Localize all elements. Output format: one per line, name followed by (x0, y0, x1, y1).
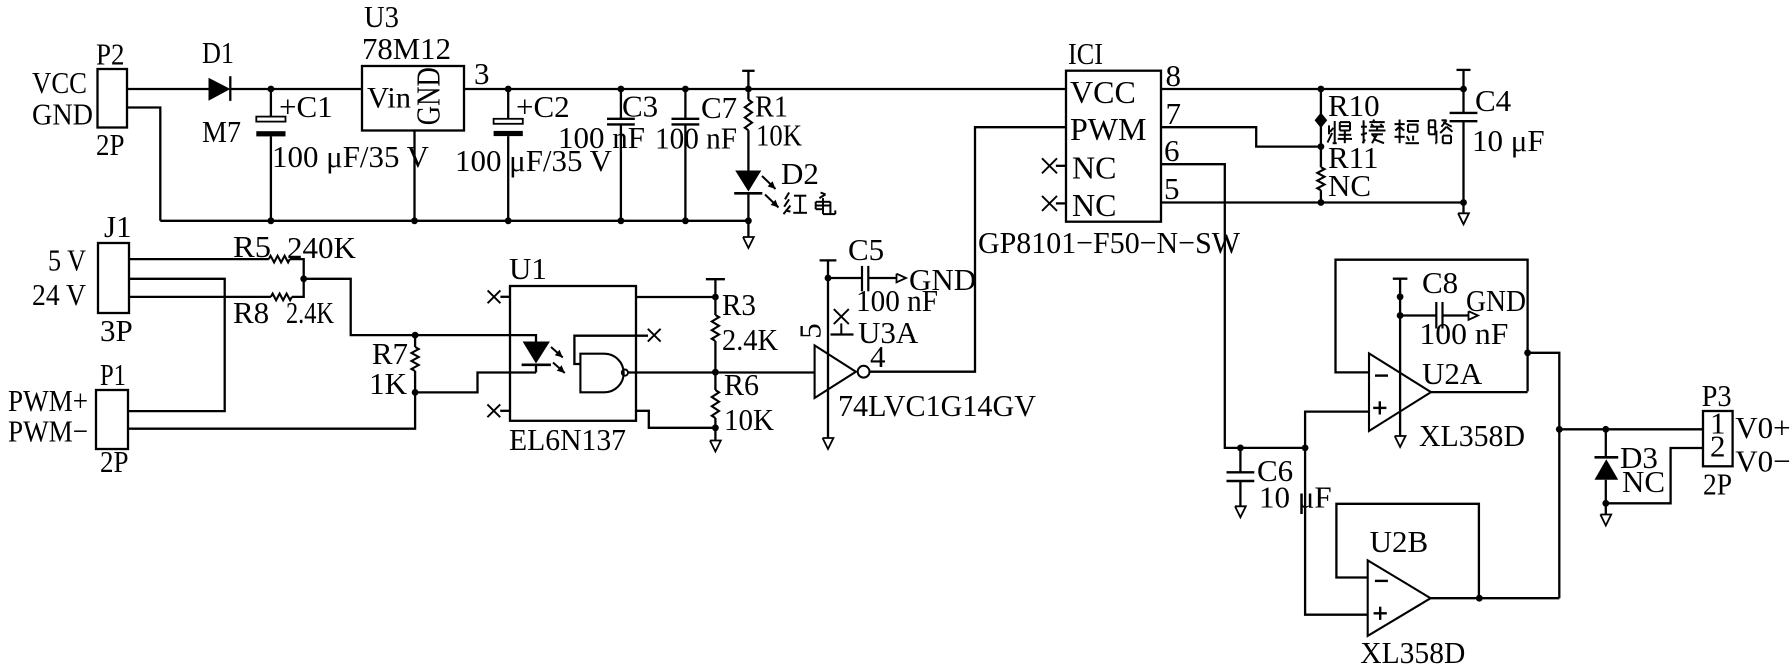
svg-text:2P: 2P (100, 444, 129, 479)
node C1 bottom (268, 217, 275, 224)
svg-text:GP8101−F50−N−SW: GP8101−F50−N−SW (978, 225, 1241, 260)
wire top rail U3 pin3 to IC1 VCC (464, 88, 1066, 90)
node R10 R11 junction (1318, 143, 1325, 150)
node C2 bottom (505, 217, 512, 224)
svg-text:M7: M7 (202, 114, 241, 149)
wire V0+ to P3 pin1 (1559, 428, 1703, 430)
U3A power line with stub and ground (820, 260, 837, 449)
connector P3 (1702, 378, 1791, 502)
connector P2 (32, 37, 127, 163)
inverter U3A 74LVC1G14GV (793, 315, 1037, 423)
svg-text:78M12: 78M12 (362, 31, 451, 66)
diode D1 (202, 35, 241, 149)
capacitor C5 to GND (828, 232, 976, 318)
node C4 top (1460, 86, 1467, 93)
IC IC1 GP8101 (978, 36, 1241, 260)
wire top rail D1 to U3 Vin (230, 88, 362, 90)
capacitor C2 (455, 89, 613, 221)
svg-text:C3: C3 (622, 89, 658, 124)
svg-text:VCC: VCC (32, 65, 87, 100)
resistor R1 (745, 89, 803, 171)
svg-text:XL358D: XL358D (1419, 418, 1525, 453)
node R10 top (1318, 86, 1325, 93)
node C3 top (618, 86, 625, 93)
svg-text:U3: U3 (364, 0, 399, 34)
resistor R3 (712, 287, 779, 372)
node C5 left (825, 275, 832, 282)
wire P2 pin1 to D1 anode (127, 88, 209, 90)
connector J1 (32, 209, 133, 348)
svg-text:GND: GND (1466, 283, 1526, 318)
svg-text:C5: C5 (848, 232, 884, 267)
svg-text:R5: R5 (233, 229, 271, 264)
wire C6 node down to U2B plus input (1305, 448, 1368, 615)
node R1 top (745, 86, 752, 93)
power stub above R3 (706, 279, 725, 297)
U2B feedback loop wire (1336, 504, 1479, 598)
svg-text:2P: 2P (96, 127, 125, 162)
U1 internal led (522, 342, 565, 374)
svg-text:10 μF: 10 μF (1259, 480, 1332, 515)
svg-text:NC: NC (1328, 168, 1371, 203)
svg-text:100 nF: 100 nF (558, 120, 645, 155)
node R11 bottom (1318, 199, 1325, 206)
svg-text:GND: GND (32, 97, 93, 132)
svg-text:D2: D2 (781, 156, 819, 191)
node R3 R6 junction (712, 369, 719, 376)
svg-text:+C2: +C2 (516, 89, 570, 124)
svg-text:10K: 10K (724, 402, 775, 437)
U1 internal nand gate (580, 354, 628, 393)
node D3 bottom (1602, 500, 1609, 507)
optocoupler U1 EL6N137 (509, 251, 636, 457)
U2B output wire (1431, 597, 1560, 599)
U2A feedback loop wire (1336, 260, 1528, 392)
diode D3 (1595, 429, 1666, 503)
node U2B feedback junction (1476, 595, 1483, 602)
svg-text:2: 2 (1710, 429, 1726, 464)
wire IC1 pin7 to R10 R11 node (1161, 127, 1321, 146)
svg-text:5: 5 (793, 323, 828, 339)
svg-text:J1: J1 (104, 209, 132, 244)
svg-text:100 μF/35 V: 100 μF/35 V (272, 139, 430, 174)
node V0 branch (1556, 426, 1563, 433)
svg-text:NC: NC (1072, 149, 1116, 185)
svg-text:U1: U1 (509, 251, 547, 286)
node C2 top (505, 86, 512, 93)
resistor R8 (233, 294, 334, 330)
U2A output wire (1431, 391, 1528, 393)
svg-text:100 nF: 100 nF (1419, 316, 1508, 351)
svg-text:U2A: U2A (1422, 356, 1483, 391)
resistor R7 (369, 335, 419, 401)
wire U3 GND pin to ground rail (413, 131, 415, 221)
svg-text:C4: C4 (1475, 83, 1512, 118)
U2A power line with stub and ground (1393, 279, 1408, 447)
node R7 bottom (412, 389, 419, 396)
node D3 top (1602, 426, 1609, 433)
svg-text:ICI: ICI (1068, 36, 1103, 71)
wire D3 node to P3 pin2 (1606, 448, 1703, 503)
svg-text:5: 5 (1164, 171, 1180, 206)
svg-text:P1: P1 (100, 357, 126, 392)
op-amp U2B XL358D (1360, 524, 1465, 667)
svg-text:NC: NC (1622, 464, 1665, 499)
svg-text:6: 6 (1164, 133, 1180, 168)
node D2 bottom (745, 217, 752, 224)
led D2 (734, 156, 819, 221)
node R5 R8 junction (300, 275, 307, 282)
label solder short (1328, 120, 1453, 144)
svg-text:3: 3 (474, 56, 490, 91)
node C8 upper (1397, 293, 1404, 300)
capacitor C6 (1227, 448, 1332, 517)
wire R5 to junction (290, 259, 304, 279)
U3A NC pin cross (831, 309, 854, 334)
wire J1 pin3 to R8 (129, 296, 271, 298)
IC1 NC pin3 cross (1042, 158, 1066, 173)
wire J1 pin2 down to P1 pin1 (128, 279, 225, 411)
wire U1 output to inverter input (628, 371, 815, 373)
U1 pin4 NC cross (487, 404, 510, 417)
svg-text:R8: R8 (233, 295, 269, 330)
resistor R6 (712, 367, 775, 437)
svg-text:XL358D: XL358D (1360, 635, 1465, 667)
node R6 bottom (712, 424, 719, 431)
wire P2 pin2 down to ground rail (127, 108, 160, 221)
svg-text:5 V: 5 V (48, 243, 87, 278)
svg-text:2.4K: 2.4K (722, 322, 779, 357)
regulator U3 78M12 (362, 0, 490, 131)
svg-text:PWM: PWM (1070, 111, 1146, 147)
wire R7 bottom to U1 cathode (415, 373, 536, 393)
svg-text:NC: NC (1072, 187, 1116, 223)
IC1 NC pin4 cross (1042, 196, 1066, 211)
connector P1 (8, 357, 129, 479)
svg-text:U3A: U3A (858, 315, 919, 350)
svg-text:PWM−: PWM− (8, 414, 88, 449)
svg-text:10K: 10K (756, 118, 803, 153)
power stub above R1 (742, 71, 754, 89)
svg-text:R10: R10 (1328, 88, 1380, 123)
svg-text:100 nF: 100 nF (856, 283, 938, 318)
U1 pin1 NC cross (488, 290, 510, 303)
node C3 bottom (618, 217, 625, 224)
node C4 bottom (1460, 199, 1467, 206)
wire J1 pin1 to R5 (129, 258, 269, 260)
capacitor C1 (256, 89, 429, 221)
wire U1 gnd pin to R6 bottom (636, 411, 715, 428)
jumper R10 solder short (1315, 88, 1380, 147)
node R7 top (412, 332, 419, 339)
node R3 top (712, 294, 719, 301)
ground arrow below D3 (1600, 503, 1611, 525)
svg-text:EL6N137: EL6N137 (509, 422, 626, 457)
svg-text:10 μF: 10 μF (1472, 123, 1545, 158)
wire U1 vcc pin8 to R3 node (636, 296, 715, 298)
node C8 left (1397, 312, 1404, 319)
svg-text:+C1: +C1 (279, 89, 333, 124)
op-amp U2A XL358D (1369, 353, 1525, 453)
svg-text:100 nF: 100 nF (655, 121, 737, 156)
wire U2A output to V0 node (1528, 353, 1560, 598)
svg-text:VCC: VCC (1070, 74, 1136, 110)
node U2 plus junction (1302, 445, 1309, 452)
wire IC1 pin5 to C4 bottom (1161, 201, 1464, 203)
label red color (784, 193, 836, 215)
U1 enable pin stub with cross (574, 329, 660, 364)
svg-text:V0−: V0− (1735, 444, 1790, 479)
svg-text:GND: GND (411, 67, 448, 125)
svg-text:Vin: Vin (367, 82, 411, 115)
node C6 top (1237, 445, 1244, 452)
wire C6 node up to U2A plus input (1305, 412, 1369, 448)
svg-text:R3: R3 (722, 287, 756, 322)
wire IC1 pin6 down to C6 node (1161, 164, 1305, 448)
ground arrow below R6 (710, 428, 721, 452)
node C7 bottom (682, 217, 689, 224)
ground arrow below C4 (1458, 203, 1469, 225)
svg-text:C8: C8 (1422, 265, 1458, 300)
wire U3A output up to IC1 PWM (870, 127, 1067, 372)
svg-text:V0+: V0+ (1735, 410, 1790, 445)
svg-text:1K: 1K (369, 366, 408, 401)
node C1 top (268, 86, 275, 93)
node C7 top (682, 86, 689, 93)
svg-text:74LVC1G14GV: 74LVC1G14GV (838, 388, 1037, 423)
svg-text:2P: 2P (1703, 467, 1732, 502)
svg-text:3P: 3P (100, 313, 133, 348)
svg-text:R6: R6 (724, 367, 759, 402)
capacitor C3 (558, 89, 658, 221)
wire R8 to junction (292, 279, 304, 297)
svg-text:U2B: U2B (1370, 524, 1429, 559)
svg-text:24 V: 24 V (32, 277, 87, 312)
node U3 GND bottom (411, 217, 418, 224)
resistor R11 (1317, 140, 1378, 203)
svg-text:8: 8 (1166, 58, 1182, 93)
resistor R5 (233, 229, 357, 265)
svg-text:P2: P2 (96, 37, 125, 72)
ground rail bottom left (160, 220, 748, 222)
capacitor C4 (1450, 70, 1545, 203)
wire IC1 pin8 to C4 (1161, 88, 1464, 90)
node U2A output branch (1524, 349, 1531, 356)
wire P1 pin2 to R7 bottom (128, 392, 415, 428)
capacitor C8 to GND (1400, 265, 1526, 351)
ground arrow below D2 (743, 221, 754, 248)
svg-text:7: 7 (1166, 96, 1182, 131)
svg-text:2.4K: 2.4K (286, 295, 334, 330)
svg-text:4: 4 (870, 339, 886, 374)
wire junction to R7 and U1 anode (304, 279, 536, 342)
capacitor C7 (655, 89, 737, 221)
svg-text:D1: D1 (202, 35, 234, 70)
